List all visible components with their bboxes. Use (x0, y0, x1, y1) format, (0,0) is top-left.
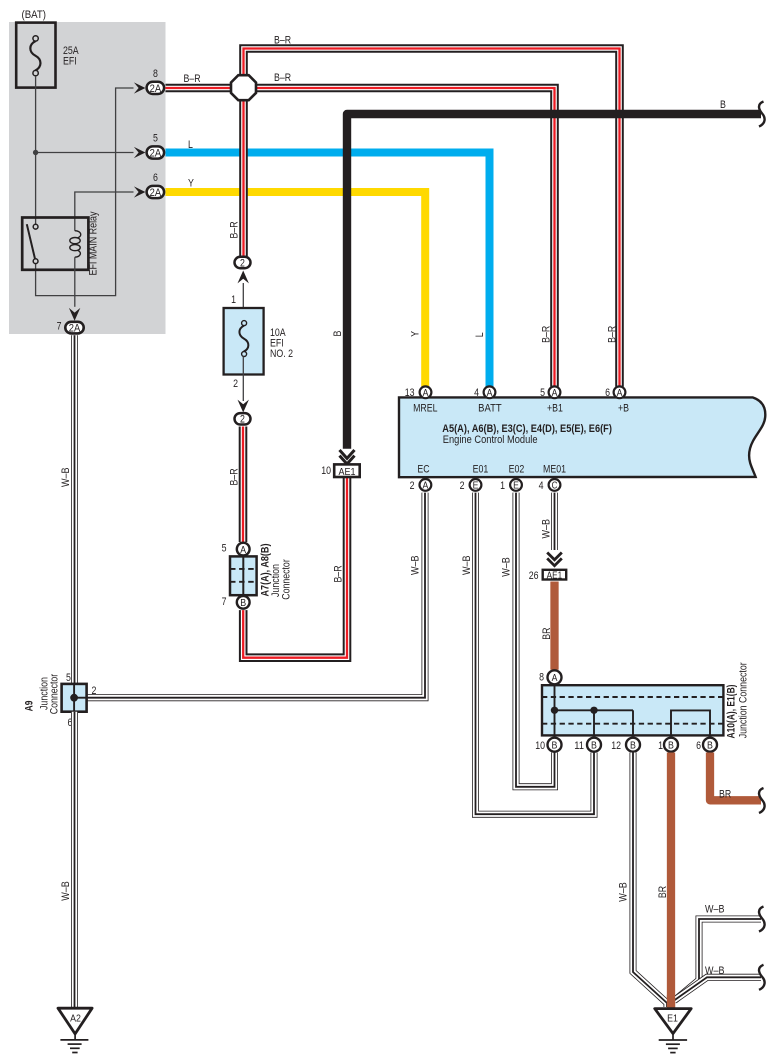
pin number 6 (ECM +B) (605, 387, 610, 399)
pin number 2 (fuse) (233, 378, 238, 390)
pin number 26 (AE1) (529, 570, 539, 582)
svg-text:1: 1 (658, 740, 663, 752)
svg-text:Y: Y (188, 178, 194, 190)
svg-text:B–R: B–R (333, 565, 345, 582)
pin 10(B) of junction connector A10 (548, 738, 562, 752)
pin 1(E) E02 (510, 479, 522, 492)
arrow (double chevron) into connector AE1 pin 26 (547, 553, 562, 566)
wire label B-R (top run) (274, 35, 291, 47)
svg-text:B–R: B–R (184, 73, 201, 85)
pin number 6 (A10) (696, 740, 701, 752)
value label 10A EFI NO. 2 (270, 327, 293, 360)
break symbol W-B upper right (759, 907, 765, 932)
svg-text:B: B (552, 740, 558, 751)
wire label BR (to E1) (657, 886, 669, 898)
pin number 2 (E01) (460, 480, 465, 492)
wire label B-R (right leg of loop) (333, 565, 345, 582)
wire BR from connector AE1 pin 26 to A10 pin 8 (550, 582, 558, 670)
wire label Y (vertical) (410, 330, 422, 336)
pin number 5 (A7) (222, 543, 227, 555)
svg-text:Connector: Connector (49, 673, 61, 714)
pin number 7 (57, 321, 62, 333)
connector 2 (upper) (235, 257, 251, 270)
svg-text:A: A (552, 388, 558, 399)
svg-text:1: 1 (231, 294, 236, 306)
svg-text:E: E (513, 481, 519, 492)
ECM name label (443, 434, 538, 446)
wire label B-R (vertical to +B1) (541, 326, 553, 343)
junction connector A9 (62, 684, 87, 712)
pin number 10 (AE1) (321, 465, 331, 477)
svg-text:B: B (332, 331, 344, 337)
wire label B-R (second run) (274, 72, 291, 84)
pin number 11 (A10) (574, 740, 584, 752)
svg-text:5: 5 (222, 543, 227, 555)
svg-text:MREL: MREL (413, 403, 437, 415)
svg-text:2: 2 (92, 685, 97, 697)
svg-text:6: 6 (153, 172, 158, 184)
connector 2A pin 6 (147, 186, 165, 199)
pin 5(A) +B1 (549, 386, 561, 399)
wire label L (188, 139, 193, 151)
svg-text:B–R: B–R (228, 468, 240, 485)
wire label W-B (EC wire) (410, 555, 422, 575)
svg-text:AE1: AE1 (339, 466, 356, 478)
ECM box Engine Control Module (399, 397, 765, 477)
arrow into connector 2A pin 8 (134, 82, 146, 93)
relay name label EFI MAIN Relay (87, 211, 99, 275)
wire battery feed vertical (fuse to relay switch) (35, 76, 37, 225)
wire B-R from 2A pin 8 through junction to ECM pin +B1 (166, 88, 555, 387)
break symbol BR wire right edge (759, 788, 765, 813)
svg-text:12: 12 (611, 740, 621, 752)
wire fuse EFI NO.2 pin 2 (242, 357, 244, 402)
pin 1(B) of junction connector A10 (664, 738, 678, 752)
svg-text:A9: A9 (23, 701, 35, 712)
wire BR from A10 pin 1 to ground E1 (667, 753, 675, 1010)
connector 2A pin 7 (65, 322, 83, 335)
value label 25A EFI (63, 45, 79, 68)
pin 12(B) of junction connector A10 (626, 738, 640, 752)
name label A10(A), E1(B) Junction Connector (726, 662, 750, 738)
wire label W-B (lower right branch) (705, 965, 725, 977)
pin 6(A) +B (614, 386, 626, 399)
svg-text:W–B: W–B (410, 555, 422, 575)
connector 2 (lower) (235, 413, 251, 426)
svg-text:Connector: Connector (280, 559, 292, 600)
svg-text:+B1: +B1 (547, 403, 563, 415)
svg-text:E02: E02 (509, 464, 525, 476)
svg-text:W–B: W–B (461, 555, 473, 575)
svg-text:2: 2 (233, 378, 238, 390)
svg-text:W–B: W–B (618, 882, 630, 902)
svg-text:(BAT): (BAT) (22, 9, 47, 21)
svg-text:B: B (240, 598, 246, 609)
svg-text:A: A (240, 545, 246, 556)
pin number 6 (153, 172, 158, 184)
svg-text:B: B (707, 740, 713, 751)
pin 8(A) of junction connector A10 (548, 670, 562, 684)
svg-text:BR: BR (657, 886, 669, 898)
svg-text:W–B: W–B (60, 467, 72, 487)
svg-text:AE1: AE1 (547, 570, 563, 581)
wire battery node to connector 2A pin 5 (36, 152, 134, 154)
svg-text:B: B (720, 99, 726, 111)
svg-text:L: L (474, 332, 486, 337)
svg-text:1: 1 (500, 480, 505, 492)
svg-text:A: A (423, 481, 429, 492)
svg-text:B–R: B–R (607, 326, 619, 343)
arrow (double chevron) into connector AE1 pin 10 (340, 450, 355, 464)
wire relay output to connector 2A pin 8 (36, 88, 134, 296)
connector 2A pin 5 (147, 146, 165, 159)
wire L (blue) from 2A pin 5 to ECM pin BATT (166, 153, 490, 387)
svg-text:B: B (668, 740, 674, 751)
svg-text:A10(A), E1(B): A10(A), E1(B) (726, 684, 738, 738)
wire W-B from ECM pin EC to junction connector A9 (87, 493, 425, 698)
arrow up into connector 2 (238, 271, 249, 284)
svg-text:C: C (552, 481, 558, 492)
wire label B-R (vertical to +B) (607, 326, 619, 343)
wire label W-B (lower left) (60, 881, 72, 901)
svg-text:26: 26 (529, 570, 539, 582)
wire label Y (188, 178, 194, 190)
svg-text:E01: E01 (473, 464, 489, 476)
svg-text:7: 7 (222, 596, 227, 608)
svg-text:7: 7 (57, 321, 62, 333)
svg-text:4: 4 (539, 480, 544, 492)
svg-text:8: 8 (539, 672, 544, 684)
svg-text:2: 2 (410, 480, 415, 492)
wire B-R from junction down to connector 2 (239, 99, 248, 256)
svg-text:B: B (591, 740, 597, 751)
wire W-B from 2A pin 7 to junction connector A9 (71, 335, 78, 684)
junction connector A10(A), E1(B) (542, 685, 723, 735)
pin number 7 (A7) (222, 596, 227, 608)
svg-text:2: 2 (460, 480, 465, 492)
wire label B (horizontal run) (720, 99, 726, 111)
svg-text:B–R: B–R (541, 326, 553, 343)
pin number 6 (A9) (68, 717, 73, 729)
svg-text:6: 6 (696, 740, 701, 752)
svg-text:BR: BR (541, 627, 553, 639)
svg-text:B–R: B–R (274, 72, 291, 84)
pin number 2 (EC) (410, 480, 415, 492)
wire B-R from junction to ECM pin +B (244, 49, 620, 387)
svg-text:13: 13 (405, 387, 415, 399)
pin 7(B) of junction connector A7 (237, 596, 250, 609)
pin number 1 (fuse) (231, 294, 236, 306)
svg-text:BR: BR (719, 789, 731, 801)
svg-text:A2: A2 (70, 1013, 81, 1025)
node (BAT) label (22, 9, 47, 21)
wire label W-B (E02 wire) (501, 557, 513, 577)
pin number 8 (A10) (539, 672, 544, 684)
fusible link FL 25A EFI (16, 23, 55, 88)
svg-text:W–B: W–B (501, 557, 513, 577)
svg-text:B–R: B–R (229, 221, 241, 238)
pin number 10 (A10) (535, 740, 545, 752)
fuse 10A EFI NO.2 (224, 308, 264, 375)
arrow into connector 2A pin 7 (69, 308, 80, 321)
pin 4(C) ME01 (549, 479, 561, 492)
name label A7(A), A8(B) Junction Connector (259, 543, 292, 600)
svg-text:W–B: W–B (60, 881, 72, 901)
pin number 13 (ECM MREL) (405, 387, 415, 399)
terminal label ME01 (543, 464, 566, 476)
svg-text:W–B: W–B (705, 904, 725, 916)
svg-text:BATT: BATT (478, 402, 502, 414)
pin number 8 (153, 68, 158, 80)
wire BR overlay near ground E1 (667, 995, 675, 1009)
wire label B-R (above A7) (228, 468, 240, 485)
terminal label EC (417, 464, 429, 476)
svg-text:E: E (473, 481, 479, 492)
svg-text:2A: 2A (150, 148, 162, 160)
wire W-B upper branch to right edge (675, 919, 761, 1000)
wire label W-B (upper left) (60, 467, 72, 487)
wire Y (yellow) from 2A pin 6 to ECM pin MREL (166, 192, 426, 387)
pin number 1 (A10) (658, 740, 663, 752)
svg-text:EFI: EFI (63, 56, 77, 68)
break symbol W-B lower right (759, 965, 765, 990)
svg-text:2: 2 (240, 414, 245, 426)
wire W-B from A10 pin 12 to ground E1 (633, 753, 667, 1008)
svg-text:10: 10 (535, 740, 545, 752)
svg-text:NO. 2: NO. 2 (270, 348, 293, 360)
ECM connector list label (442, 423, 612, 435)
svg-text:5: 5 (540, 387, 545, 399)
wire label BR (to A10 pin 8) (541, 627, 553, 639)
relay EFI MAIN Relay (22, 218, 88, 307)
pin 2(E) E01 (470, 479, 482, 492)
wire relay coil top to connector 2A pin 6 (75, 192, 134, 231)
svg-text:2A: 2A (150, 187, 162, 199)
wire W-B from junction connector A9 to ground A2 (71, 712, 78, 1008)
break symbol wire B right edge (759, 102, 765, 127)
svg-text:A: A (552, 673, 558, 684)
terminal label BATT (478, 402, 502, 414)
pin 5(A) of junction connector A7 (237, 543, 250, 556)
wire label W-B (upper right branch) (705, 904, 725, 916)
wire fuse EFI NO.2 pin 1 (242, 283, 244, 321)
svg-text:2: 2 (240, 257, 245, 269)
svg-text:EC: EC (417, 464, 429, 476)
wire BR from A10 pin 6 to right edge (710, 753, 761, 801)
svg-text:2A: 2A (150, 83, 162, 95)
arrow into connector 2A pin 5 (134, 147, 146, 158)
pin number 5 (ECM +B1) (540, 387, 545, 399)
svg-text:B: B (630, 740, 636, 751)
terminal label E02 (509, 464, 525, 476)
svg-text:A: A (617, 388, 623, 399)
svg-text:EFI MAIN Relay: EFI MAIN Relay (87, 211, 99, 275)
pin 2(A) EC (420, 479, 432, 492)
wire label B-R (at 2A pin 8) (184, 73, 201, 85)
fusible link block (battery supply area) (9, 22, 166, 334)
pin number 4 (ME01) (539, 480, 544, 492)
wire W-B from ECM pin E01 to A10 pin 11 (476, 493, 595, 815)
pin 6(B) of junction connector A10 (703, 738, 717, 752)
terminal label +B1 (547, 403, 563, 415)
wire W-B from ECM pin E02 to A10 pin 10 (516, 493, 555, 787)
wire label W-B (E01 wire) (461, 555, 473, 575)
wire label W-B (pin 12 wire) (618, 882, 630, 902)
pin 4(A) BATT (484, 386, 496, 399)
wire B-R from connector 2 to junction connector A7 pin 5 (239, 427, 248, 543)
ground E1 (655, 1009, 692, 1053)
terminal label MREL (413, 403, 437, 415)
svg-text:E1: E1 (667, 1013, 678, 1025)
svg-text:4: 4 (474, 387, 479, 399)
svg-text:8: 8 (153, 68, 158, 80)
junction node (octagon) (231, 75, 256, 100)
pin number 5 (A9) (66, 672, 71, 684)
wire B-R from A7 pin 7 to connector AE1 pin 10 (243, 477, 347, 658)
svg-text:5: 5 (66, 672, 71, 684)
name label A9 Junction Connector (23, 673, 60, 714)
pin number 4 (ECM BATT) (474, 387, 479, 399)
svg-text:5: 5 (153, 133, 158, 145)
svg-text:A: A (423, 388, 429, 399)
pin number 12 (A10) (611, 740, 621, 752)
connector AE1 pin 26 (543, 570, 567, 582)
pin number 1 (E02) (500, 480, 505, 492)
wire label W-B (ME01 wire) (541, 519, 553, 539)
svg-text:+B: +B (618, 403, 629, 415)
svg-text:A: A (487, 388, 493, 399)
wire label B-R (vertical to connector 2) (229, 221, 241, 238)
svg-text:W–B: W–B (705, 965, 725, 977)
wire B (black) main feed to connector AE1 (347, 114, 761, 449)
arrow into connector 2A pin 6 (134, 186, 146, 197)
pin number 5 (153, 133, 158, 145)
junction connector A7(A), A8(B) (230, 556, 257, 595)
pin number 2 (A9) (92, 685, 97, 697)
junction dot battery node (33, 150, 38, 155)
svg-text:ME01: ME01 (543, 464, 566, 476)
arrow down into connector 2 (lower) (238, 400, 249, 413)
connector AE1 pin 10 (334, 464, 360, 478)
svg-text:Engine Control Module: Engine Control Module (443, 434, 538, 446)
wire label L (vertical) (474, 332, 486, 337)
svg-text:Junction Connector: Junction Connector (737, 662, 749, 738)
pin 11(B) of junction connector A10 (587, 738, 601, 752)
svg-text:Y: Y (410, 330, 422, 336)
svg-text:10: 10 (321, 465, 331, 477)
terminal label +B (618, 403, 629, 415)
ground A2 (58, 1008, 92, 1052)
svg-text:W–B: W–B (541, 519, 553, 539)
terminal label E01 (473, 464, 489, 476)
wire label B (vertical) (332, 331, 344, 337)
pin 13(A) MREL (420, 386, 432, 399)
svg-text:11: 11 (574, 740, 584, 752)
svg-text:L: L (188, 139, 193, 151)
svg-text:6: 6 (605, 387, 610, 399)
connector 2A pin 8 (147, 82, 165, 95)
wire label BR (pin 6 branch) (719, 789, 731, 801)
svg-text:2A: 2A (69, 323, 81, 335)
wire W-B from ECM pin ME01 to connector AE1 pin 26 (551, 493, 558, 550)
wire W-B lower branch to right edge (674, 977, 761, 1000)
svg-text:B–R: B–R (274, 35, 291, 47)
